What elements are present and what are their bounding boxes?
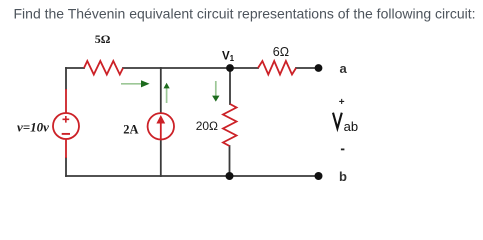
svg-text:v=10v: v=10v	[17, 119, 49, 134]
svg-text:6Ω: 6Ω	[273, 45, 289, 59]
svg-text:+: +	[339, 97, 345, 108]
svg-text:ab: ab	[344, 119, 358, 134]
svg-text:b: b	[339, 169, 347, 184]
svg-text:2A: 2A	[123, 123, 138, 137]
svg-text:5Ω: 5Ω	[95, 32, 111, 46]
svg-text:20Ω: 20Ω	[196, 119, 218, 133]
svg-text:Find the Thévenin equivalent c: Find the Thévenin equivalent circuit rep…	[14, 6, 476, 22]
svg-text:V1: V1	[222, 51, 235, 64]
svg-text:a: a	[340, 61, 348, 76]
